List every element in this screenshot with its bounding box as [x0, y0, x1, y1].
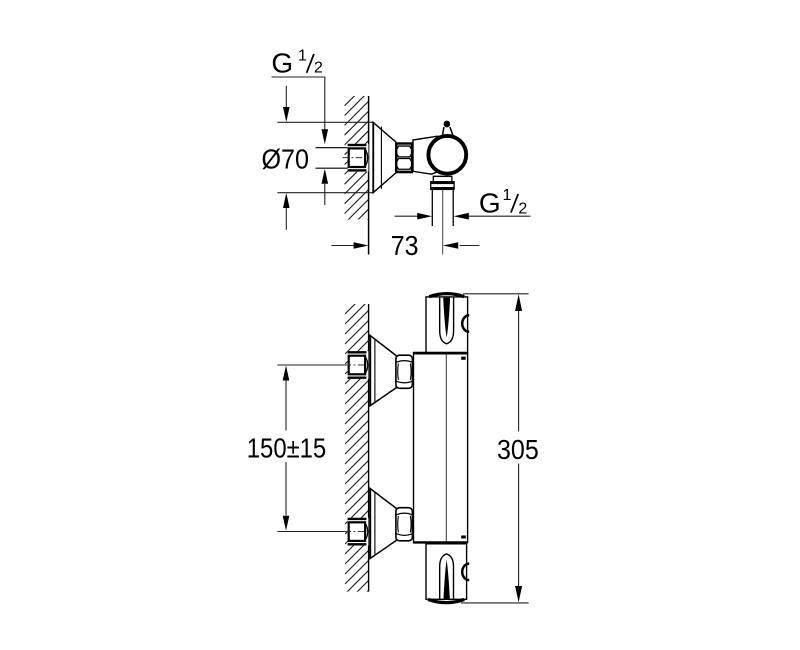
square nut — [349, 148, 365, 167]
union cap line bottom — [348, 169, 367, 171]
escutcheon cone — [373, 122, 396, 192]
svg-text:150±15: 150±15 — [247, 432, 326, 463]
wall hatching (bottom figure) — [345, 280, 369, 624]
leader line under G1/2 — [272, 76, 326, 78]
hex nut (top union) — [396, 355, 413, 388]
extension line 150 bottom — [277, 531, 345, 533]
top handle cap arc — [429, 294, 464, 297]
white backing — [348, 518, 369, 546]
bottom handle side button — [462, 564, 469, 581]
escutcheon highlight (top union) — [374, 340, 376, 402]
body bottom thick edge — [413, 541, 467, 543]
wall hatching (top figure) — [345, 72, 369, 253]
svg-text:Ø70: Ø70 — [262, 143, 310, 174]
cap lines — [348, 518, 367, 520]
escutcheon base line (bottom union) — [369, 488, 371, 558]
G1/2 pipe dimension arrows — [395, 213, 531, 220]
centerline (dash-dot) — [345, 364, 369, 366]
escutcheon (bottom union) — [370, 488, 396, 558]
extension line 305 top — [463, 293, 529, 295]
escutcheon highlight line — [380, 127, 382, 189]
white backing — [348, 351, 369, 379]
button mark upper — [461, 357, 465, 360]
svg-text:2: 2 — [314, 60, 323, 77]
button mark lower — [461, 536, 466, 539]
thread arc in wall — [366, 150, 368, 165]
extension line Ø70 bottom — [277, 192, 373, 194]
bottom handle cap arc — [428, 599, 464, 602]
label G 1/2 (top left) — [271, 47, 323, 78]
knob tip — [444, 121, 451, 128]
svg-text:G: G — [271, 48, 293, 79]
outlet band 1 — [433, 176, 452, 181]
pipe stub lines into nut — [316, 147, 349, 149]
escutcheon highlight (bottom union) — [374, 493, 376, 555]
hose pipe walls — [431, 189, 433, 226]
label G 1/2 (right) — [479, 187, 528, 218]
bottom handle grip wedge — [444, 560, 450, 599]
escutcheon (top union) — [370, 335, 396, 405]
centerline (dash-dot) — [343, 157, 370, 159]
hose centerline — [442, 189, 444, 254]
leader arrows G1/2 to nut — [322, 77, 329, 205]
dimension 150±15 — [283, 366, 290, 531]
svg-text:305: 305 — [497, 434, 539, 465]
bottom handle grip outline — [440, 554, 454, 599]
outlet hose nut — [431, 182, 454, 190]
extension line Ø70 top — [277, 121, 373, 123]
escutcheon base line — [372, 122, 374, 192]
wall face line (top figure) — [368, 96, 370, 255]
top handle grip wedge — [443, 298, 450, 338]
bottom handle — [426, 544, 467, 600]
wall face line (bottom figure) — [368, 304, 370, 592]
hex nut (bottom union) — [396, 508, 413, 541]
extension line 150 top — [277, 364, 345, 366]
thread arc — [366, 524, 368, 539]
centerline (dash-dot) — [345, 531, 369, 533]
cap lines — [348, 351, 367, 353]
hex swivel nut — [396, 144, 412, 173]
escutcheon base line (top union) — [369, 335, 371, 405]
body trunk — [414, 353, 468, 543]
thread arc — [366, 358, 368, 373]
dimension Ø70 arrows — [283, 86, 290, 230]
svg-text:1: 1 — [298, 47, 307, 64]
valve housing circle — [428, 136, 466, 174]
wall union white backing — [348, 144, 369, 172]
knob stem — [442, 127, 453, 136]
svg-text:73: 73 — [391, 230, 419, 261]
top handle — [426, 297, 468, 353]
valve body — [413, 136, 453, 174]
svg-text:1: 1 — [503, 187, 512, 204]
dimension 305 — [515, 294, 522, 602]
top handle side button — [462, 315, 469, 332]
square nut — [349, 356, 365, 375]
body top thick edge — [414, 352, 468, 355]
body inner line — [445, 355, 447, 542]
svg-text:G: G — [479, 187, 501, 218]
outlet neck line — [433, 175, 452, 177]
top handle grip outline — [440, 298, 454, 344]
dimension 73 — [331, 242, 479, 249]
union cap line top — [348, 144, 367, 146]
svg-text:2: 2 — [518, 201, 527, 218]
square nut — [349, 522, 365, 541]
extension line 305 bottom — [461, 602, 529, 604]
